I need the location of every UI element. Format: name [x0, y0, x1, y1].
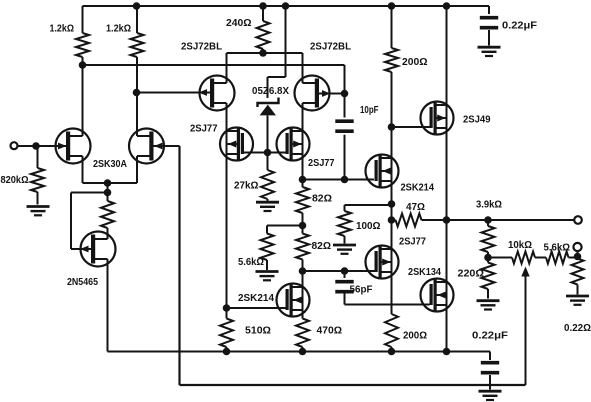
resistor 82R upper body — [296, 187, 309, 213]
ground below 27k — [256, 202, 279, 211]
label 2SK30A — [93, 159, 127, 170]
transistor Q4 2SJ72BL left — [200, 76, 235, 111]
resistor 0.22R body — [572, 259, 584, 285]
node 2SJ49 gate junction — [388, 123, 396, 131]
svg-text:05Z6.8X: 05Z6.8X — [252, 86, 289, 97]
resistor 200R lower body — [385, 314, 398, 347]
label 2SJ77 mid — [308, 158, 335, 169]
resistor 82R lower body — [296, 234, 309, 260]
label 05Z6.8X — [252, 86, 289, 97]
label 2SJ77 driver — [399, 237, 426, 248]
gate arrow Q2 — [154, 143, 163, 150]
svg-text:10kΩ: 10kΩ — [508, 240, 532, 251]
resistor 820k body — [31, 168, 44, 192]
svg-text:2SJ77: 2SJ77 — [190, 124, 218, 135]
svg-text:56pF: 56pF — [350, 285, 373, 296]
label 1.2k right — [106, 24, 131, 35]
svg-text:0.22Ω: 0.22Ω — [564, 323, 591, 334]
transistor Q3 2N5465 — [81, 232, 116, 267]
svg-text:2SJ77: 2SJ77 — [308, 158, 335, 169]
svg-text:2SK214: 2SK214 — [401, 183, 435, 194]
ground below 5.6k mid — [256, 272, 279, 281]
svg-text:47Ω: 47Ω — [406, 202, 425, 213]
label 220R — [458, 269, 485, 280]
node output column top — [443, 2, 451, 10]
label 200R lower — [403, 331, 427, 342]
node source-100R junction — [388, 200, 396, 208]
node 0.22R top junction — [574, 253, 582, 261]
wire second rail (drains bias) — [83, 64, 345, 66]
node y179 left — [299, 176, 307, 184]
svg-text:1.2kΩ: 1.2kΩ — [50, 24, 75, 35]
svg-text:2SK30A: 2SK30A — [93, 159, 127, 170]
ground below 820k — [27, 207, 50, 216]
resistor 3.9k column — [487, 220, 489, 299]
gate arrow Q4 (points out) — [199, 89, 208, 96]
gate arrow Q5 (points out) — [322, 90, 331, 97]
label 2SJ72BL left — [181, 42, 222, 53]
wire rail2 drop to 2SJ72BL gate node — [344, 65, 346, 94]
wire diff pair tail — [83, 156, 138, 239]
label 27k — [234, 181, 259, 192]
potentiometer wiper arrow — [521, 267, 529, 386]
ground below 100R — [333, 245, 356, 254]
svg-text:2SK134: 2SK134 — [408, 267, 441, 278]
label 82R lower — [312, 241, 332, 252]
label 0.22R — [564, 323, 591, 334]
resistor 1.2k left body — [76, 33, 89, 57]
node 82R midpoint — [299, 222, 307, 230]
label 10pF — [360, 105, 379, 116]
wire input to gate — [18, 145, 67, 147]
transistor Q2 2SK30A right — [129, 129, 164, 164]
wire output line — [447, 219, 575, 221]
node 200R top — [388, 2, 396, 10]
resistor 1.2k right body — [131, 33, 144, 57]
wire Q5 gate line — [319, 93, 345, 95]
wire left cascode column — [226, 53, 228, 308]
wire Q4 gate line — [137, 92, 211, 94]
svg-text:2SJ77: 2SJ77 — [399, 237, 426, 248]
svg-text:200Ω: 200Ω — [403, 331, 427, 342]
node driver feed junction — [299, 267, 307, 275]
node 470R bottom — [299, 348, 307, 356]
label 10k — [508, 240, 532, 251]
wire drains link y53 — [227, 52, 303, 54]
transistor Q5 2SJ72BL right — [295, 76, 330, 111]
output terminal — [574, 216, 582, 224]
inverting input terminal — [573, 243, 581, 251]
node 510R bottom — [223, 348, 231, 356]
label 5.6k mid — [238, 257, 264, 268]
resistor 5.6k right body — [546, 252, 569, 264]
transistor Q1 2SK30A left — [56, 129, 91, 164]
wire zener anode column — [267, 116, 269, 202]
node zener rail junction — [282, 2, 290, 10]
gate arrow Q3 (P-channel, points out) — [80, 246, 89, 253]
input terminal — [11, 142, 18, 149]
svg-text:820kΩ: 820kΩ — [1, 175, 29, 186]
ground below 220R — [477, 301, 500, 310]
label 0.22uF top — [502, 21, 537, 32]
svg-text:3.9kΩ: 3.9kΩ — [476, 200, 502, 211]
svg-text:200Ω: 200Ω — [402, 57, 428, 68]
wire tail to 2N5465 gate — [71, 193, 108, 250]
resistor 510R body — [220, 319, 233, 348]
resistor 240R column — [262, 6, 264, 53]
transistor Q6 2SJ77 left — [220, 128, 253, 161]
svg-text:2SK214: 2SK214 — [238, 293, 274, 304]
capacitor 0.22uF bottom — [481, 363, 499, 373]
zener diode 05Z6.8X — [258, 98, 279, 116]
wire 2SJ49 gate line — [392, 126, 430, 128]
svg-text:10pF: 10pF — [360, 105, 379, 116]
transistor Q7 2SJ77 right — [277, 128, 310, 161]
label 470R — [317, 326, 343, 337]
node 56pF top — [341, 267, 349, 275]
wire Q2 gate to feedback — [154, 145, 180, 147]
wire 2N5465 source to bottom rail — [107, 259, 109, 352]
svg-text:5.6kΩ: 5.6kΩ — [544, 243, 571, 254]
node top rail junction R2 — [133, 2, 141, 10]
wire top positive rail — [83, 5, 490, 7]
label 2SJ49 — [463, 115, 491, 126]
svg-text:5.6kΩ: 5.6kΩ — [238, 257, 264, 268]
node drain junction to 2SJ72BL gate — [133, 89, 141, 97]
label 56pF — [350, 285, 373, 296]
resistor 820k lead — [36, 146, 38, 205]
transistor Q8 2SK214 upper — [366, 155, 399, 188]
wire y271 to driver gate — [303, 270, 375, 272]
svg-text:0.22μF: 0.22μF — [472, 331, 508, 342]
node tail junction B — [104, 189, 112, 197]
wire 56pF column — [344, 271, 346, 305]
label 2SK134 — [408, 267, 441, 278]
label 820k — [1, 175, 29, 186]
label 2SK214 lower — [238, 293, 274, 304]
node output junction — [443, 216, 451, 224]
resistor 200R upper body — [385, 48, 398, 72]
label 82R upper — [312, 194, 332, 205]
resistor tail body — [101, 201, 114, 228]
node tail junction A — [104, 179, 112, 187]
svg-text:1.2kΩ: 1.2kΩ — [106, 24, 131, 35]
node y179 right — [341, 176, 349, 184]
resistor 3.9k body — [482, 226, 495, 252]
node Q5 gate junction — [341, 90, 349, 98]
node 200R lower bottom — [388, 348, 396, 356]
node 47R left — [388, 216, 396, 224]
node 510R top junction — [223, 304, 231, 312]
node zener-gates junction — [264, 149, 272, 157]
node 2SK134 source junction — [443, 348, 451, 356]
wire output device column — [446, 6, 448, 352]
resistor 240R body — [257, 21, 270, 49]
resistor 100R body — [338, 211, 351, 236]
resistor 220R body — [482, 263, 495, 290]
node 240R bottom — [259, 49, 267, 57]
ground below bottom cap — [479, 391, 502, 400]
transistor Q11 2SK134 — [421, 279, 454, 312]
label 510R — [245, 326, 271, 337]
label 5.6k right — [544, 243, 571, 254]
wire right cascode column — [302, 53, 304, 352]
wire 5.6k branch — [267, 226, 303, 271]
label 47R — [406, 202, 425, 213]
transistor Q9 2SJ49 — [421, 102, 454, 135]
resistor 47R leads — [392, 219, 447, 221]
capacitor 10pF — [335, 121, 353, 131]
label 2SK214 upper — [401, 183, 435, 194]
svg-text:470Ω: 470Ω — [317, 326, 343, 337]
node feedback top junction — [484, 216, 492, 224]
potentiometer 10k body — [512, 252, 535, 264]
resistor R 1.2k right column — [136, 6, 138, 136]
node 1.2k left bottom junction — [79, 61, 87, 69]
label 2N5465 — [67, 277, 98, 288]
svg-text:82Ω: 82Ω — [312, 194, 332, 205]
svg-text:2SJ49: 2SJ49 — [463, 115, 491, 126]
ground below 0.22R — [566, 296, 589, 305]
resistor 510R column — [226, 308, 228, 352]
svg-text:0.22μF: 0.22μF — [502, 21, 537, 32]
label 1.2k left — [50, 24, 75, 35]
transistor Q12 2SK214 lower — [277, 284, 310, 317]
resistor 47R body — [396, 214, 422, 227]
node 240R top — [259, 2, 267, 10]
wire 10pF column — [344, 94, 346, 180]
label 2SJ72BL right — [310, 42, 351, 53]
wire 200R upper column — [391, 6, 393, 352]
node divider mid junction — [484, 254, 492, 262]
wire lower K214 gate line — [227, 307, 286, 309]
wire zener top to rail — [268, 6, 286, 98]
label 100R — [356, 221, 381, 232]
svg-text:82Ω: 82Ω — [312, 241, 332, 252]
svg-text:27kΩ: 27kΩ — [234, 181, 259, 192]
transistor Q10 2SJ77 driver — [366, 246, 399, 279]
svg-text:510Ω: 510Ω — [245, 326, 271, 337]
wire 2SK134 gate line — [345, 304, 430, 306]
svg-text:2SJ72BL: 2SJ72BL — [310, 42, 351, 53]
label 2SJ77 upper-left — [190, 124, 218, 135]
capacitor 56pF — [335, 282, 353, 292]
resistor R 1.2k left column — [82, 6, 84, 136]
resistor 5.6k mid body — [261, 234, 274, 261]
svg-text:240Ω: 240Ω — [226, 18, 252, 29]
resistor 470R body — [296, 319, 309, 348]
svg-text:2N5465: 2N5465 — [67, 277, 98, 288]
wire top cap lead — [488, 6, 490, 46]
wire 0.22R bottom lead — [577, 285, 579, 295]
label 240R — [226, 18, 252, 29]
wire gates line — [244, 152, 286, 154]
svg-text:220Ω: 220Ω — [458, 269, 485, 280]
wire bottom source rail — [108, 351, 491, 353]
wire pot row — [488, 251, 578, 259]
wire y179 gate feed — [303, 179, 375, 181]
node input junction — [32, 142, 40, 150]
svg-text:100Ω: 100Ω — [356, 221, 381, 232]
wire 100R branch — [345, 205, 392, 244]
gate arrow Q1 — [58, 143, 67, 150]
label 3.9k — [476, 200, 502, 211]
capacitor 0.22uF top — [480, 18, 498, 28]
wire bottom cap lead — [489, 352, 491, 390]
wire feedback bottom run — [180, 146, 526, 385]
label 200R upper — [402, 57, 428, 68]
ground below top cap — [478, 47, 501, 56]
resistor 27k body — [261, 170, 274, 199]
svg-text:2SJ72BL: 2SJ72BL — [181, 42, 222, 53]
label 0.22uF bottom — [472, 331, 508, 342]
